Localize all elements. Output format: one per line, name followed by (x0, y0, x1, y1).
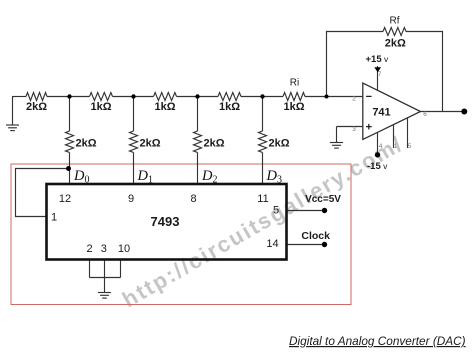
svg-text:+: + (366, 122, 372, 134)
svg-text:12: 12 (59, 193, 71, 205)
svg-text:2kΩ: 2kΩ (385, 38, 406, 50)
svg-text:-15 v: -15 v (367, 161, 388, 172)
svg-text:2kΩ: 2kΩ (75, 138, 96, 150)
svg-text:3: 3 (352, 126, 356, 133)
svg-text:Rf: Rf (390, 16, 400, 27)
svg-text:2kΩ: 2kΩ (139, 138, 160, 150)
svg-text:1kΩ: 1kΩ (283, 101, 304, 113)
svg-text:−: − (366, 91, 372, 103)
svg-text:Vcc=5V: Vcc=5V (305, 194, 341, 205)
svg-text:10: 10 (118, 243, 130, 255)
svg-text:7493: 7493 (151, 214, 180, 229)
svg-text:1: 1 (394, 143, 398, 150)
svg-text:14: 14 (266, 238, 278, 250)
svg-text:4: 4 (379, 143, 383, 150)
svg-text:5: 5 (408, 143, 412, 150)
svg-text:2: 2 (352, 96, 356, 103)
svg-text:Digital to Analog Converter (D: Digital to Analog Converter (DAC) (289, 334, 466, 348)
svg-text:7: 7 (378, 71, 382, 78)
svg-text:Ri: Ri (290, 78, 299, 89)
svg-text:2kΩ: 2kΩ (26, 101, 47, 113)
svg-text:1: 1 (51, 212, 57, 224)
svg-text:2kΩ: 2kΩ (268, 138, 289, 150)
svg-text:5: 5 (273, 205, 279, 217)
svg-text:Clock: Clock (301, 230, 330, 242)
svg-text:2kΩ: 2kΩ (203, 138, 224, 150)
svg-text:8: 8 (190, 193, 196, 205)
svg-text:1kΩ: 1kΩ (154, 101, 175, 113)
svg-text:11: 11 (257, 193, 268, 205)
svg-text:1kΩ: 1kΩ (219, 101, 240, 113)
svg-text:3: 3 (101, 243, 107, 255)
svg-text:6: 6 (423, 111, 427, 118)
svg-text:741: 741 (372, 107, 390, 119)
svg-text:9: 9 (128, 193, 134, 205)
svg-text:1kΩ: 1kΩ (90, 101, 111, 113)
svg-text:2: 2 (86, 243, 92, 255)
svg-text:+15 v: +15 v (366, 54, 389, 65)
